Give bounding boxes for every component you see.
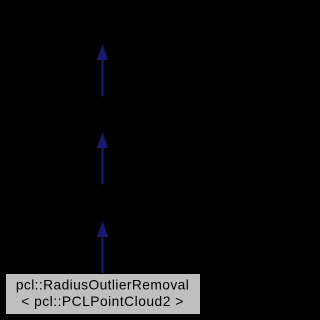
svg-text:< pcl::PCLPointCloud2 >: < pcl::PCLPointCloud2 > — [21, 294, 184, 309]
svg-text:pcl::RadiusOutlierRemoval: pcl::RadiusOutlierRemoval — [16, 278, 189, 293]
inheritance arrow 2 (middle): shaft / wire — [102, 147, 104, 184]
inheritance arrow 3 (bottom): shaft / wire — [102, 236, 104, 273]
class node box: pcl::RadiusOutlierRemoval< pcl::PCLPointCloud2 > — [6, 274, 201, 315]
inheritance arrow 2 (middle): head — [97, 133, 109, 149]
inheritance arrow 1 (top): shaft / wire — [102, 59, 104, 96]
inheritance arrow 3 (bottom): head — [97, 221, 109, 237]
inheritance arrow 1 (top): head — [97, 45, 109, 61]
